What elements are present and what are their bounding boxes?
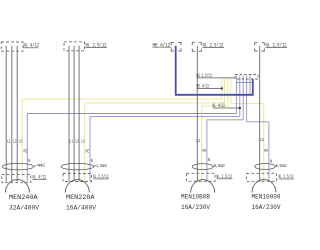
svg-text:L3: L3: [260, 139, 264, 143]
label HE 4/12 with leader dot on PE drop v1: [197, 83, 224, 89]
svg-text:PE: PE: [203, 150, 207, 154]
wire N drop n1: [235, 76, 237, 114]
breaker B2 dashed box: [64, 42, 85, 51]
svg-text:32A/400V: 32A/400V: [9, 204, 39, 211]
wire PE yellow drop v4 from PE bus: [230, 78, 232, 104]
wire N1 vertical group 1: [26, 114, 28, 182]
svg-text:PE: PE: [264, 150, 268, 154]
cable dashed box group 4: [247, 173, 277, 181]
cable dashed box group 3: [187, 173, 216, 181]
svg-text:L1 L2 L3: L1 L2 L3: [7, 141, 23, 145]
svg-text:MEN240A: MEN240A: [9, 194, 38, 201]
wire PE3 horizontal to group 3: [202, 105, 228, 107]
leader line to cable size label group 1: [34, 165, 37, 166]
wire PE yellow drop v2 from PE bus: [224, 78, 226, 103]
cable marker ellipse group 1: [2, 163, 33, 169]
label NL 4/12 cable group 1: [33, 175, 47, 181]
wire phase L2 group 1: [11, 46, 13, 182]
leader line to cable size label group 3: [213, 165, 215, 166]
svg-text:2,5mm2: 2,5mm2: [214, 165, 225, 169]
wire phase L3 group 2: [78, 46, 80, 182]
wire PE yellow drop v3 from PE bus: [227, 78, 229, 106]
leader line to cable size label group 2: [94, 165, 96, 166]
svg-text:4mm2: 4mm2: [37, 165, 46, 169]
wire PE4 horizontal to group 4: [231, 103, 264, 105]
label NL 2,5/12 for breaker B2: [86, 43, 108, 49]
wire PE1 vertical group 1: [21, 99, 23, 182]
leader line to cable size label group 4: [275, 165, 277, 166]
outgoing feeder arc group 3: [191, 180, 215, 193]
wire main feed HE 6/12 thick blue from breaker B3 to terminal block: [176, 46, 253, 95]
svg-text:MEN10808: MEN10808: [252, 193, 281, 200]
label HE 6/12 for breaker B3: [153, 42, 172, 48]
cable dashed box group 1: [2, 174, 31, 182]
svg-text:L2: L2: [196, 140, 200, 144]
cable marker ellipse group 2: [61, 163, 94, 169]
label NL 2,5/12 cable group 4: [279, 174, 295, 180]
wire PE yellow drop v1 from PE bus: [221, 78, 223, 99]
wire PE4 vertical group 4: [263, 104, 265, 182]
svg-text:MEN10B0B: MEN10B0B: [181, 193, 210, 200]
wire phase L1 group 1: [5, 46, 7, 182]
svg-text:16A/230V: 16A/230V: [181, 204, 210, 211]
svg-text:16A/230V: 16A/230V: [252, 204, 281, 211]
svg-text:L1 L2 L3: L1 L2 L3: [69, 141, 85, 145]
wire N3 horizontal to group 3: [207, 119, 243, 121]
breaker B5 corner-bracket box: [255, 43, 265, 51]
wire N2 horizontal to group 2: [90, 115, 240, 117]
wire phase L2 group 3 from breaker B4: [196, 46, 198, 182]
outgoing feeder arc group 1: [5, 180, 29, 193]
cable marker ellipse group 4: [255, 164, 275, 170]
label NL 2,5/12 cable group 3: [217, 174, 233, 180]
outgoing feeder arc group 2: [65, 180, 89, 193]
wire PE2 vertical group 2: [83, 103, 85, 182]
label NL 2,5/12 for breaker B5: [266, 43, 288, 49]
label NL 2,5/12 for breaker B4: [203, 43, 225, 49]
breaker B4 corner-bracket box: [192, 42, 201, 51]
wire phase L3 group 1: [16, 46, 18, 182]
wire N drop n5: [249, 76, 251, 95]
breaker B3 corner-bracket box: [171, 43, 181, 52]
cable marker ellipse group 3: [192, 164, 213, 170]
svg-text:PE: PE: [24, 151, 28, 155]
svg-text:2,5mm2: 2,5mm2: [276, 165, 287, 169]
svg-text:MEN228A: MEN228A: [66, 194, 95, 201]
outgoing feeder arc group 4: [252, 180, 276, 193]
wire phase L3 group 4 from breaker B5: [259, 46, 261, 182]
wire phase L2 group 2: [73, 46, 75, 182]
wire N4 horizontal to group 4: [247, 121, 269, 123]
wire N drop n4: [246, 76, 248, 122]
terminal block B6 dashed box: [235, 75, 258, 80]
svg-text:16A/400V: 16A/400V: [66, 204, 96, 211]
wire PE1 horizontal to group 1: [22, 98, 222, 100]
wire N bus connector below terminal block: [236, 82, 252, 84]
wire N1 horizontal to group 1: [27, 113, 236, 115]
svg-text:2,5mm2: 2,5mm2: [96, 165, 107, 169]
wire N drop n3: [242, 76, 244, 120]
breaker B1 dashed box: [1, 42, 23, 51]
svg-text:PE: PE: [86, 151, 90, 155]
label HE 2,5/12 with leader to PE bus: [197, 73, 236, 79]
wire N2 vertical group 2: [89, 116, 91, 181]
wire N4 vertical group 4: [268, 122, 270, 182]
label NL 4/12 for breaker B1: [24, 43, 40, 49]
wire N3 vertical group 3: [206, 120, 208, 182]
label NL 4/12 with leader dot on N drop: [213, 103, 242, 109]
label NL 2,5/12 cable group 2: [93, 174, 109, 180]
cable dashed box group 2: [63, 174, 92, 182]
wire N drop n2: [239, 76, 241, 117]
wire PE2 horizontal to group 2: [84, 102, 224, 104]
wire PE3 vertical group 3: [201, 106, 203, 182]
wire phase L1 group 2: [68, 46, 70, 182]
